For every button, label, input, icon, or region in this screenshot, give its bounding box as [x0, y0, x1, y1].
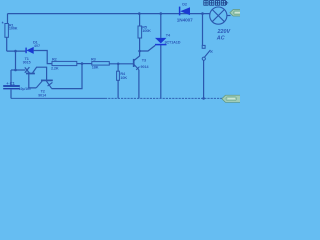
wire gate node down to T3 collector	[134, 51, 140, 61]
node dot R2-R3 junction	[81, 62, 84, 65]
transistor T2 9014	[36, 80, 53, 88]
wire node A down to node B	[15, 51, 17, 70]
svg-text:*: *	[2, 21, 4, 27]
wire R3 right to T3 base	[109, 63, 133, 65]
wire R2 right to R3 left	[77, 63, 92, 65]
svg-text:100K: 100K	[142, 29, 151, 33]
wire T1 collector to T2 base	[33, 67, 47, 80]
resistor R3	[92, 62, 110, 66]
svg-text:10μ/16V: 10μ/16V	[19, 87, 32, 91]
wire lamp branch down to switch	[202, 14, 204, 46]
wire node B horizontal to T1 emitter	[11, 69, 25, 71]
svg-text:100K: 100K	[9, 26, 18, 30]
node dot SCR anode tap	[160, 12, 163, 15]
diode D2 1N4007	[180, 7, 190, 16]
wire left vertical from top rail to R1	[7, 14, 9, 24]
wire T3 emitter down to bottom rail	[138, 70, 140, 99]
wire R5 top lead	[139, 14, 141, 26]
node dot lamp branch tap	[201, 12, 204, 15]
svg-text:18K: 18K	[92, 66, 99, 70]
node dot C1-T1 junction	[14, 69, 17, 72]
svg-text:4V7: 4V7	[34, 44, 40, 48]
wire SCR cathode to bottom rail	[160, 45, 162, 99]
svg-text:9014: 9014	[38, 94, 46, 98]
transistor T1 9015	[25, 67, 35, 73]
wire top rail	[8, 13, 211, 15]
node dot R1-D1 junction	[14, 50, 17, 53]
wire R4 bottom lead to bottom rail	[117, 80, 119, 98]
wire R1 bottom lead down to node A	[6, 37, 8, 51]
wire C1 bottom lead	[10, 90, 12, 99]
thyristor T4 3CT1A1D	[155, 38, 167, 45]
wire switch bottom to bottom rail	[203, 60, 205, 98]
svg-text:3CT1A1D: 3CT1A1D	[165, 41, 181, 45]
node dot switch bottom rail tap	[202, 97, 205, 100]
svg-text:D2: D2	[182, 3, 187, 7]
wire T1 base down and right to T2 collector	[29, 73, 36, 88]
wire R5 bottom lead to gate node	[139, 38, 141, 51]
capacitor C1	[3, 86, 20, 89]
node dot R5-gate junction	[138, 50, 141, 53]
resistor R1	[5, 24, 8, 38]
wire bottom rail left	[11, 97, 105, 99]
watermark tag bottom right	[222, 95, 244, 102]
svg-text:AC: AC	[216, 36, 225, 42]
lamp	[210, 7, 227, 24]
svg-text:R2: R2	[52, 57, 57, 61]
svg-text:T3: T3	[142, 58, 146, 62]
lamp label	[204, 1, 228, 6]
node dot R5 top rail tap	[138, 12, 141, 15]
svg-text:10K: 10K	[120, 76, 127, 80]
svg-text:+ C1: + C1	[6, 81, 15, 86]
wire node A horizontal to D1 cathode	[7, 50, 26, 52]
wire D1 anode to R2 left	[34, 51, 52, 64]
switch K	[202, 45, 210, 60]
wire C1 top lead	[10, 70, 12, 86]
svg-text:R3: R3	[91, 58, 96, 62]
watermark tag top right	[230, 10, 244, 17]
svg-text:1N4007: 1N4007	[177, 17, 193, 22]
resistor R2	[52, 61, 77, 65]
transistor T3 9014	[134, 59, 140, 70]
node dot R3-R4-T3 junction	[117, 63, 120, 66]
wire bottom rail right	[105, 97, 224, 99]
wire R4 top lead	[117, 64, 119, 71]
resistor R4	[117, 71, 120, 80]
svg-text:2.2K: 2.2K	[51, 67, 59, 71]
resistor R5	[138, 26, 142, 38]
wire SCR anode from top rail	[160, 14, 162, 38]
svg-text:9015: 9015	[23, 60, 31, 64]
wire lamp right lead to tag	[227, 15, 231, 17]
wire R2-R3 junction drop to T2 emitter	[52, 64, 83, 89]
diode D1	[26, 47, 34, 54]
svg-text:220V: 220V	[217, 29, 231, 35]
svg-text:9014: 9014	[141, 65, 149, 69]
wire gate node to SCR gate	[140, 45, 156, 51]
